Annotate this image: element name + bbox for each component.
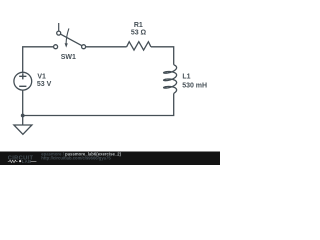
wire xyxy=(23,93,174,115)
logo resistor zigzag xyxy=(8,160,18,162)
svg-text:530 mH: 530 mH xyxy=(182,83,207,90)
node junction xyxy=(21,114,25,118)
logo square xyxy=(19,160,21,162)
resistor R1 xyxy=(127,42,151,50)
ground xyxy=(14,116,32,135)
svg-text:LAB: LAB xyxy=(22,159,32,164)
svg-text:SW1: SW1 xyxy=(61,54,76,61)
wire xyxy=(151,47,174,65)
svg-text:http://circuitlab.com/c/99666/: http://circuitlab.com/c/99666/gya75 xyxy=(41,156,111,161)
switch SW1 xyxy=(54,23,86,49)
svg-text:53 Ω: 53 Ω xyxy=(131,30,147,37)
wire xyxy=(86,46,127,48)
logo right dash xyxy=(31,160,37,162)
watermark bar xyxy=(0,152,220,166)
wire xyxy=(22,90,24,115)
wire xyxy=(23,47,54,72)
svg-text:L1: L1 xyxy=(182,74,190,81)
voltage source V1 xyxy=(14,72,32,90)
svg-text:R1: R1 xyxy=(134,22,143,29)
inductor L1 xyxy=(164,65,177,93)
svg-text:53 V: 53 V xyxy=(37,81,52,88)
svg-text:V1: V1 xyxy=(37,74,46,81)
